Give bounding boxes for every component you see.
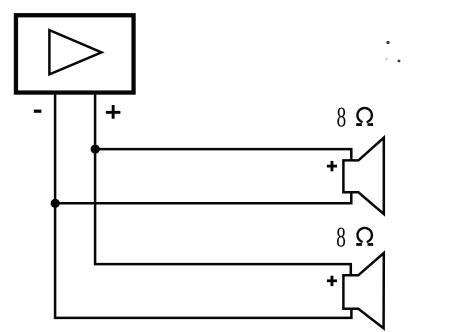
speaker SPK1 — [343, 138, 383, 214]
svg-text:8: 8 — [336, 222, 346, 254]
wire: negative run (amp - terminal down, across bottom, up to SPK2 lower pin) — [55, 93, 351, 318]
amplifier gain triangle — [49, 30, 101, 74]
junction dot on positive wire — [91, 145, 100, 154]
amplifier box U1 — [16, 15, 134, 92]
speaker SPK2 — [343, 253, 383, 328]
minus terminal label — [34, 110, 42, 113]
wire: positive run (amp + terminal down, across, down to SPK2 upper pin) — [95, 93, 351, 276]
svg-text:8: 8 — [337, 102, 347, 134]
plus terminal label — [106, 105, 121, 119]
wire: positive branch to SPK1 upper pin — [95, 149, 351, 160]
plus polarity marker SPK2 — [327, 276, 337, 286]
plus polarity marker SPK1 — [327, 161, 337, 171]
label 8 ohm SPK1 — [337, 102, 373, 134]
wire: negative branch to SPK1 lower pin — [55, 192, 351, 203]
junction dot on negative wire — [51, 199, 60, 208]
label 8 ohm SPK2 — [336, 222, 373, 254]
